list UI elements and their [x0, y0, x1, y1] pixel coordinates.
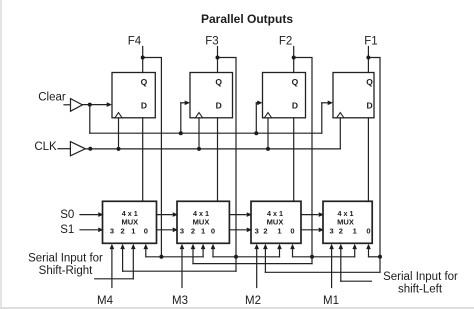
svg-text:Q: Q: [366, 77, 373, 87]
svg-text:MUX: MUX: [121, 217, 138, 226]
node: Q4 junction: [366, 56, 370, 60]
node: Q1 junction: [141, 56, 145, 60]
svg-text:CLK: CLK: [34, 141, 57, 153]
node: Clear tap at FF3: [254, 131, 258, 135]
svg-text:D: D: [367, 101, 373, 111]
wire: MUX1 output to FF1 D input: [142, 118, 144, 202]
svg-text:M2: M2: [245, 295, 261, 307]
wire: FF4 clock input: [339, 118, 341, 149]
label Serial Input for Shift-Right: [28, 253, 103, 278]
wire: serial input shift-left to MUX4 input 2: [339, 244, 372, 281]
wire: Clear riser to FF2: [181, 101, 190, 134]
wire: Clear riser to FF3: [256, 101, 262, 134]
wire: parallel input M1 to MUX4 input 3: [329, 244, 334, 288]
svg-text:Parallel Outputs: Parallel Outputs: [201, 12, 293, 26]
svg-text:3: 3: [255, 226, 259, 235]
svg-text:Q: Q: [141, 77, 148, 87]
wire: Q4 to MUX3 input 2 (shift-left path): [263, 244, 380, 272]
wire: Q3 to MUX2 input 2 (shift-left path): [191, 244, 312, 264]
D flip-flop FF1: [112, 73, 155, 118]
wire: select lines MUX1 to MUX2: [157, 212, 179, 232]
svg-text:shift-Left: shift-Left: [398, 283, 443, 295]
svg-text:Q: Q: [292, 77, 299, 87]
wire: Clear riser to FF4: [322, 101, 333, 134]
wire: F3 output from FF2 Q: [217, 47, 219, 73]
svg-text:0: 0: [366, 226, 370, 235]
wire: S0 select into MUX1: [80, 212, 104, 217]
wire: Clear buffer output to FF1 CLR input: [82, 102, 112, 107]
svg-text:M1: M1: [323, 295, 339, 307]
wire: Q1 feedback down right side of FF1: [143, 58, 162, 257]
svg-text:D: D: [216, 101, 222, 111]
node: CLK tap at FF2: [197, 147, 201, 151]
svg-text:D: D: [141, 101, 147, 111]
wire: Q4 feedback down right side of FF4: [368, 58, 380, 257]
svg-text:F3: F3: [205, 35, 218, 47]
svg-text:MUX: MUX: [193, 217, 210, 226]
svg-text:F4: F4: [128, 35, 142, 47]
svg-text:2: 2: [191, 226, 195, 235]
wire: Q2 feedback down right side of FF2: [218, 58, 237, 257]
wire: parallel input M2 to MUX3 input 3: [254, 244, 259, 288]
wire: FF3 clock input: [267, 118, 269, 149]
multiplexer MUX4 (4x1): [323, 201, 372, 243]
svg-text:F2: F2: [279, 35, 292, 47]
wire: S1 select into MUX1: [80, 228, 104, 233]
svg-text:3: 3: [110, 226, 114, 235]
node: CLK buffer output: [88, 147, 92, 151]
node: CLK tap at FF1: [117, 147, 121, 151]
node: Q3 feedback junction: [310, 255, 314, 259]
wire: select lines MUX2 to MUX3: [229, 212, 252, 232]
node: CLK tap at FF3: [266, 147, 270, 151]
wire: Q2 to MUX1 input 2 (shift-left path): [120, 244, 236, 271]
svg-text:S1: S1: [60, 224, 74, 236]
svg-text:1: 1: [277, 226, 281, 235]
svg-text:3: 3: [180, 226, 184, 235]
buffer gate B2 (CLK buffer): [58, 142, 85, 156]
scan edge shading left: [0, 0, 2, 309]
wire: parallel input M4 to MUX1 input 3: [110, 244, 115, 288]
svg-text:S0: S0: [60, 209, 74, 221]
svg-text:MUX: MUX: [267, 217, 284, 226]
svg-text:D: D: [292, 101, 298, 111]
wire: select lines MUX3 to MUX4: [301, 212, 324, 232]
svg-text:Serial Input for: Serial Input for: [28, 253, 103, 265]
svg-text:2: 2: [339, 226, 343, 235]
svg-text:Clear: Clear: [38, 92, 66, 104]
wire: Q4 to MUX4 input 0: [366, 244, 380, 257]
wire: FF2 clock input: [198, 118, 200, 149]
svg-text:Shift-Right: Shift-Right: [39, 265, 93, 277]
node: Clear tap at FF2: [179, 131, 183, 135]
node: Q3 junction: [292, 56, 296, 60]
wire: parallel input M3 to MUX2 input 3: [180, 244, 185, 288]
label Serial Input for shift-Left: [383, 271, 458, 295]
svg-text:0: 0: [290, 226, 294, 235]
wire: CLK distribution line: [85, 148, 340, 150]
node: Q4 feedback junction: [378, 255, 382, 259]
svg-text:MUX: MUX: [337, 217, 354, 226]
svg-text:Serial Input for: Serial Input for: [383, 271, 458, 283]
wire: Q1 to MUX1 input 0 and MUX2 input 1: [144, 244, 206, 257]
svg-text:0: 0: [144, 226, 148, 235]
node: Clear branch junction: [88, 103, 92, 107]
wire: F4 output from FF1 Q: [142, 47, 144, 73]
svg-text:F1: F1: [364, 35, 377, 47]
svg-text:1: 1: [131, 226, 135, 235]
svg-text:M3: M3: [172, 295, 188, 307]
D flip-flop FF4: [333, 73, 374, 118]
wire: F2 output from FF3 Q: [293, 47, 295, 73]
wire: serial input shift-right to MUX1 input 1: [95, 244, 136, 279]
wire: Clear distribution line: [90, 105, 322, 134]
wire: FF1 clock input: [118, 118, 120, 149]
wire: MUX4 output to FF4 D input: [367, 118, 369, 202]
svg-text:1: 1: [201, 226, 205, 235]
multiplexer MUX1 (4x1): [103, 201, 157, 243]
D flip-flop FF3: [263, 73, 306, 118]
wire: F1 output from FF4 Q: [367, 47, 369, 73]
svg-text:M4: M4: [97, 295, 114, 307]
node: Q2 feedback junction: [234, 255, 238, 259]
wire: Q3 to MUX3 input 0 and MUX4 input 1: [290, 244, 357, 257]
wire: Q2 to MUX2 input 0 and MUX3 input 1: [211, 244, 282, 257]
wire: Q3 feedback down right side of FF3: [294, 58, 312, 257]
wire: MUX3 output to FF3 D input: [293, 118, 295, 202]
svg-text:3: 3: [330, 226, 334, 235]
svg-text:2: 2: [121, 226, 125, 235]
multiplexer MUX3 (4x1): [251, 201, 301, 243]
node: Q2 junction: [216, 56, 220, 60]
wire: MUX2 output to FF2 D input: [217, 118, 219, 202]
svg-text:0: 0: [211, 226, 215, 235]
buffer gate B1 (Clear buffer): [64, 99, 82, 112]
D flip-flop FF2: [190, 73, 233, 118]
scan edge shading bottom: [0, 307, 474, 309]
svg-text:2: 2: [263, 226, 267, 235]
node: Q1 feedback junction: [159, 255, 163, 259]
svg-text:Q: Q: [215, 77, 222, 87]
svg-text:1: 1: [353, 226, 357, 235]
multiplexer MUX2 (4x1): [177, 201, 229, 243]
